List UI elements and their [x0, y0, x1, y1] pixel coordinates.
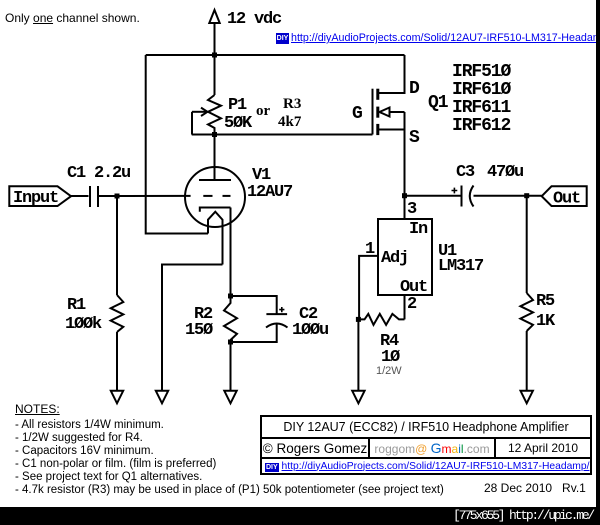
- wire R5 to ground: [526, 331, 528, 391]
- svg-text:1K: 1K: [536, 312, 556, 331]
- svg-text:G: G: [352, 104, 362, 124]
- wire P1 to tube plate: [214, 135, 216, 181]
- wire R2 top to C2: [231, 296, 277, 314]
- title block table: [260, 415, 592, 475]
- svg-text:P1: P1: [228, 96, 247, 115]
- svg-text:2: 2: [407, 295, 417, 314]
- ground (R1): [111, 391, 123, 404]
- wire C3 to out: [474, 195, 542, 197]
- svg-text:1/2W: 1/2W: [376, 365, 402, 377]
- wire heater right leg to ground: [162, 265, 223, 391]
- svg-text:or: or: [256, 103, 271, 119]
- input tag: [9, 186, 71, 208]
- svg-text:LM317: LM317: [438, 257, 484, 276]
- svg-text:4k7: 4k7: [278, 114, 302, 130]
- wire R1 to ground: [116, 332, 118, 391]
- tube V1 filament: [208, 212, 223, 265]
- resistor R5: [520, 292, 556, 331]
- power 12 vdc arrow: [209, 10, 282, 55]
- svg-text:Adj: Adj: [381, 249, 408, 268]
- junction cathode / R2 / C2: [228, 294, 233, 299]
- ground (heater): [156, 391, 168, 404]
- wire out to R5: [526, 196, 528, 293]
- ground (R5): [521, 391, 533, 404]
- wire heater left leg to 12V rail: [146, 55, 208, 234]
- wire R2 to ground: [230, 340, 232, 391]
- label: or R3 4k7: [256, 96, 302, 130]
- wire input to C1: [71, 195, 89, 197]
- junction 12V rail / supply: [212, 53, 217, 58]
- wire gate net: [215, 134, 373, 136]
- wire cathode to R2: [230, 208, 232, 297]
- wire C1 to grid junction: [98, 195, 117, 197]
- out tag: [542, 186, 587, 208]
- tube V1 grid dashes: [203, 195, 230, 197]
- svg-text:IRF611: IRF611: [452, 98, 512, 118]
- transistor Q1 mosfet: [373, 55, 405, 196]
- junction R2 bottom / C2: [228, 340, 233, 345]
- svg-text:Input: Input: [13, 189, 58, 208]
- wire R4 junction to ground: [357, 319, 359, 390]
- ground (R4): [352, 391, 364, 404]
- op-amp U1 LM317 box: [378, 219, 432, 297]
- wire rail to P1: [214, 55, 216, 95]
- top DIY badge: [276, 33, 289, 44]
- capacitor C3: [452, 163, 524, 207]
- svg-text:R3: R3: [283, 96, 301, 112]
- tube V1 envelope: [185, 167, 245, 227]
- wire junction down to R1: [116, 196, 118, 295]
- svg-text:12AU7: 12AU7: [247, 183, 293, 202]
- svg-text:R5: R5: [536, 292, 555, 311]
- label D G S Q1: [352, 79, 449, 148]
- junction P1 bottom / gate: [212, 132, 217, 137]
- date rv label: [484, 481, 586, 495]
- wire source node to LM317 In: [404, 196, 406, 219]
- label IRF510 IRF610 IRF611 IRF612: [452, 62, 512, 136]
- svg-text:C3: C3: [456, 163, 475, 182]
- junction Adj / R4: [356, 317, 361, 322]
- label V1 12AU7: [247, 166, 293, 202]
- tube V1 plate: [199, 179, 231, 181]
- svg-text:IRF51Ø: IRF51Ø: [452, 62, 512, 82]
- tube V1 cathode: [200, 208, 231, 212]
- bottom black bar: [0, 507, 600, 525]
- wire P1 strap bottom: [192, 134, 215, 136]
- junction grid node: [115, 194, 120, 199]
- svg-text:R1: R1: [67, 296, 86, 315]
- ground (R2): [224, 391, 236, 404]
- wire C2 to R2 bottom: [231, 324, 277, 342]
- svg-text:S: S: [409, 128, 420, 148]
- svg-text:IRF612: IRF612: [452, 116, 511, 136]
- wire 12V rail: [146, 54, 405, 56]
- resistor R1: [65, 295, 123, 334]
- svg-text:5ØK: 5ØK: [224, 114, 253, 133]
- junction source node: [402, 193, 407, 198]
- svg-text:15Ø: 15Ø: [185, 321, 213, 340]
- resistor R4: [358, 314, 404, 367]
- svg-text:Out: Out: [553, 190, 580, 209]
- label U1 LM317: [438, 242, 484, 276]
- right black strip: [596, 0, 600, 525]
- junction out node: [524, 193, 529, 198]
- note: only one channel shown: [5, 11, 140, 25]
- svg-text:3: 3: [407, 200, 417, 219]
- notes block: [15, 403, 444, 497]
- top link: [291, 32, 600, 44]
- capacitor C2: [266, 305, 328, 340]
- resistor R2: [185, 296, 237, 340]
- svg-text:12 vdc: 12 vdc: [227, 10, 282, 29]
- capacitor C1: [67, 164, 130, 207]
- wire Out pin down: [404, 295, 406, 319]
- svg-text:In: In: [409, 220, 428, 239]
- svg-text:D: D: [409, 79, 420, 99]
- wire junction to grid: [117, 195, 191, 197]
- svg-text:Q1: Q1: [428, 93, 449, 113]
- svg-text:C1 2.2u: C1 2.2u: [67, 164, 130, 183]
- svg-text:1ØØk: 1ØØk: [65, 315, 102, 334]
- potentiometer P1: [192, 95, 253, 135]
- wire Adj to R4 junction: [359, 256, 378, 320]
- svg-text:47Øu: 47Øu: [487, 163, 523, 182]
- wire source node to C3: [405, 195, 462, 197]
- svg-text:1ØØu: 1ØØu: [292, 321, 328, 340]
- svg-text:IRF61Ø: IRF61Ø: [452, 80, 512, 100]
